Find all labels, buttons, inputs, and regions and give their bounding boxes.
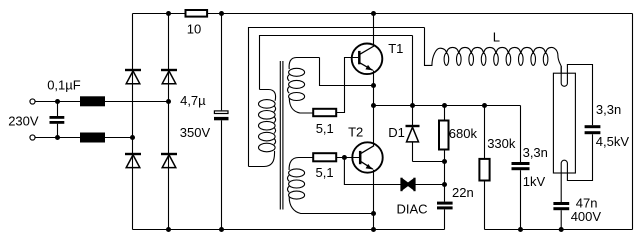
- node bottom input to bridge: [130, 135, 135, 140]
- wire L branch and inductor L humps: [425, 28, 562, 73]
- capacitor C 22n: [437, 202, 453, 230]
- wire input bottom: [35, 137, 133, 139]
- svg-text:1kV: 1kV: [523, 174, 546, 189]
- transformer core: [279, 61, 281, 210]
- node T1 collector rail: [371, 11, 376, 16]
- svg-text:T2: T2: [348, 125, 363, 140]
- capacitor C 3,3n 1kV: [512, 106, 530, 230]
- lamp filament bottom: [561, 134, 592, 202]
- svg-text:230V: 230V: [8, 114, 39, 129]
- capacitor C 47n: [553, 202, 569, 230]
- inductor L loop rings: [444, 53, 548, 65]
- wire bottom rail right: [485, 229, 633, 231]
- wire T1 collector: [373, 14, 375, 47]
- resistor R 680k: [439, 106, 449, 202]
- wire midpoint: [374, 105, 521, 107]
- inductor choke bottom: [80, 133, 105, 143]
- wire D1 anode to 680k: [413, 161, 445, 163]
- capacitor C 4,7u electrolytic: [214, 111, 229, 120]
- diac DIAC: [402, 178, 415, 192]
- diode bridge bottom-right: [161, 154, 177, 168]
- svg-text:4,5kV: 4,5kV: [596, 134, 630, 149]
- wire secondary top to T1 emitter: [320, 58, 374, 86]
- wire T2 base: [337, 157, 360, 159]
- svg-text:22n: 22n: [452, 185, 474, 200]
- capacitor C 0,1uF: [50, 102, 65, 138]
- terminal input top: [30, 99, 35, 104]
- transformer primary winding: [249, 90, 276, 167]
- svg-text:0,1µF: 0,1µF: [47, 77, 81, 92]
- diode D1: [406, 36, 420, 162]
- capacitor C 3,3n 4,5kV: [585, 125, 601, 134]
- diode bridge bottom-left: [125, 154, 141, 168]
- node 1kV cap rail: [518, 227, 523, 232]
- transistor T1: [352, 44, 383, 75]
- svg-text:350V: 350V: [180, 125, 211, 140]
- wire top rail: [133, 13, 633, 15]
- lamp tube: [553, 73, 575, 173]
- wire R5,1 top to T1 base: [337, 58, 358, 113]
- node T1 emitter feedback: [371, 83, 376, 88]
- node input bottom junction: [55, 135, 60, 140]
- terminal input bottom: [30, 135, 35, 140]
- inductor choke top: [80, 96, 105, 106]
- node 680k D1: [442, 159, 447, 164]
- wire T2 emitter: [373, 170, 375, 230]
- node T2 emitter winding return: [371, 211, 376, 216]
- svg-text:T1: T1: [388, 41, 403, 56]
- node 680k diac: [442, 182, 447, 187]
- resistor R 5,1 top: [313, 109, 336, 116]
- diode bridge top-right: [161, 70, 177, 84]
- node bridge top-right rail: [166, 11, 171, 16]
- node electrolytic top: [219, 11, 224, 16]
- diode bridge top-left: [125, 70, 141, 84]
- svg-text:400V: 400V: [571, 209, 602, 224]
- transistor T2: [352, 142, 382, 172]
- node top input to bridge: [166, 99, 171, 104]
- wire feedback left outer: [249, 28, 425, 167]
- svg-text:680k: 680k: [449, 126, 478, 141]
- wire bottom rail left: [133, 229, 445, 231]
- transformer secondary bottom winding: [288, 158, 374, 214]
- svg-text:L: L: [493, 30, 500, 45]
- svg-text:5,1: 5,1: [316, 165, 334, 180]
- wire bridge left column: [132, 14, 134, 230]
- svg-text:3,3n: 3,3n: [596, 102, 621, 117]
- wire input top: [35, 101, 169, 103]
- node 330k midpoint: [482, 103, 487, 108]
- wire electrolytic branch: [221, 14, 223, 111]
- wire feedback left inner: [260, 36, 413, 90]
- wire bridge right column: [168, 14, 170, 230]
- wire T1 emitter to T2 collector: [373, 71, 375, 147]
- node 47n rail: [559, 227, 564, 232]
- node T2 base diac junction: [342, 155, 347, 160]
- svg-text:5,1: 5,1: [316, 121, 334, 136]
- resistor R 5,1 bottom: [313, 153, 336, 161]
- node midpoint: [371, 103, 376, 108]
- svg-text:10: 10: [187, 22, 201, 37]
- node T2 emitter rail: [371, 227, 376, 232]
- wire diac branch: [344, 158, 400, 185]
- svg-text:4,7µ: 4,7µ: [180, 93, 206, 108]
- node electrolytic bottom: [219, 227, 224, 232]
- svg-text:DIAC: DIAC: [397, 202, 428, 217]
- lamp filament top: [561, 65, 592, 126]
- svg-text:330k: 330k: [487, 136, 516, 151]
- resistor R 10: [186, 10, 208, 17]
- resistor R 330k: [479, 106, 489, 230]
- node bridge bottom-right rail: [166, 227, 171, 232]
- transformer secondary top winding: [288, 58, 320, 114]
- node input top junction: [55, 99, 60, 104]
- wire right edge: [632, 14, 634, 230]
- wire diac to 22n: [416, 184, 445, 186]
- node 680k midpoint: [442, 103, 447, 108]
- svg-text:3,3n: 3,3n: [523, 145, 548, 160]
- svg-text:D1: D1: [388, 125, 405, 140]
- node D1 midpoint: [410, 103, 415, 108]
